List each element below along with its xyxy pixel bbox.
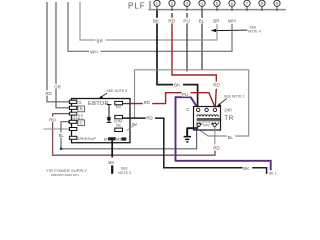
transformer secondary coil bbox=[197, 122, 219, 124]
pin THERM-R bbox=[69, 112, 76, 115]
wire BK from relay coil M1 bbox=[111, 140, 113, 157]
label 24V bbox=[202, 123, 210, 127]
transformer TR box bbox=[194, 107, 221, 131]
svg-text:NO: NO bbox=[116, 105, 122, 109]
svg-text:BK: BK bbox=[153, 19, 160, 24]
svg-text:PU: PU bbox=[132, 122, 138, 127]
label BK on wire bbox=[173, 82, 183, 88]
label PU pin3 bbox=[183, 18, 192, 24]
svg-text:BR: BR bbox=[213, 19, 220, 24]
label RD on wire bbox=[49, 117, 57, 123]
svg-text:TR: TR bbox=[224, 115, 234, 122]
svg-text:C: C bbox=[186, 107, 189, 112]
label BR pin5 bbox=[212, 18, 222, 24]
svg-text:24V: 24V bbox=[203, 124, 210, 128]
svg-text:BK: BK bbox=[243, 166, 249, 171]
node blue at C pin bbox=[68, 120, 71, 123]
label WH pin6 bbox=[227, 18, 237, 24]
svg-text:R: R bbox=[80, 107, 83, 112]
wire RD thermostat: top edge down to G pin bbox=[47, 2, 70, 102]
svg-text:BK: BK bbox=[174, 83, 181, 88]
label WH on wire bbox=[89, 48, 101, 54]
svg-text:RD: RD bbox=[168, 19, 175, 24]
label PU bbox=[182, 92, 191, 97]
connector PLF pin 2 bbox=[169, 0, 175, 11]
svg-text:208/230V 60HZ 1PH: 208/230V 60HZ 1PH bbox=[51, 173, 79, 176]
wire BR: pin5 down, left, up to top edge bbox=[80, 2, 217, 40]
EBTDR relay box bbox=[72, 99, 131, 143]
ground wire from 24V common bbox=[187, 128, 196, 137]
svg-text:RD: RD bbox=[146, 116, 152, 121]
label BK pin1 bbox=[152, 18, 162, 24]
wire COM black to bottom right bbox=[123, 118, 267, 174]
svg-text:PU: PU bbox=[183, 19, 189, 24]
svg-text:RD: RD bbox=[213, 83, 219, 88]
svg-text:PLF: PLF bbox=[128, 2, 146, 11]
label BK on bottom wire bbox=[243, 165, 253, 170]
wire stub pin4 BL bbox=[201, 10, 203, 69]
wire RD: pin2 down, right, down to transformer 240 terminal bbox=[172, 13, 216, 109]
label BL pin4 bbox=[198, 18, 206, 24]
connector PLF pin 7 bbox=[244, 0, 250, 11]
svg-text:SPEEDUP: SPEEDUP bbox=[77, 136, 96, 141]
svg-text:BL: BL bbox=[199, 19, 205, 24]
wire RD secondary: transformer down to maroon return bbox=[214, 127, 216, 145]
svg-text:WH: WH bbox=[90, 49, 98, 54]
contact COM bbox=[115, 115, 123, 118]
svg-text:240: 240 bbox=[224, 107, 232, 112]
wire WH: pin6 down, left, up to top edge bbox=[68, 2, 232, 51]
svg-text:BR: BR bbox=[97, 38, 104, 43]
connector PLF pin 9 bbox=[274, 0, 280, 11]
svg-text:BK: BK bbox=[108, 160, 114, 165]
transformer primary coil bbox=[197, 115, 219, 117]
svg-text:WH: WH bbox=[228, 19, 236, 24]
wire GR thermostat: top edge down to R pin bbox=[56, 2, 70, 108]
pin aux bbox=[69, 128, 76, 131]
label RD on wire bbox=[45, 90, 52, 95]
label RD pin2 bbox=[168, 18, 177, 24]
svg-text:M2: M2 bbox=[116, 137, 122, 142]
wire NC stub bbox=[127, 124, 136, 130]
contact NC bbox=[115, 128, 123, 131]
svg-text:RD: RD bbox=[45, 91, 51, 96]
svg-text:G: G bbox=[78, 100, 81, 105]
connector PLF pin 6 bbox=[229, 0, 235, 11]
wire BL common: C pin left, down, right to transformer junction bbox=[61, 122, 197, 149]
connector PLF pin 1 bbox=[154, 0, 160, 11]
svg-text:GR: GR bbox=[54, 84, 61, 89]
terminal bottom left bbox=[197, 123, 200, 126]
label RD on wire bbox=[213, 82, 222, 88]
label BL on C wire bbox=[58, 133, 66, 138]
svg-text:SEE NOTE 1: SEE NOTE 1 bbox=[224, 94, 245, 98]
svg-text:BK 1: BK 1 bbox=[269, 171, 276, 175]
svg-text:RD: RD bbox=[144, 100, 150, 105]
connector PLF pin 4 bbox=[199, 0, 205, 11]
svg-text:RD: RD bbox=[213, 146, 219, 151]
pin G bbox=[69, 100, 76, 103]
connector PLF bracket bar bbox=[149, 1, 287, 10]
label GR on wire bbox=[54, 84, 62, 89]
wire terminal to junction bbox=[197, 125, 199, 128]
ground symbol bbox=[184, 137, 191, 142]
svg-text:BL: BL bbox=[228, 135, 234, 140]
transformer core bbox=[197, 119, 220, 121]
svg-text:SEE NOTE 5: SEE NOTE 5 bbox=[107, 89, 128, 93]
wire PU: pin3 down (dangling) bbox=[186, 13, 188, 72]
svg-text:NOTE 3: NOTE 3 bbox=[118, 171, 131, 175]
svg-text:SEE: SEE bbox=[121, 166, 129, 170]
connector PLF pin 3 bbox=[184, 0, 190, 11]
svg-text:EBTDR: EBTDR bbox=[88, 101, 109, 107]
wire COM-BL: relay COM up, right, down, left to BL junction bbox=[135, 70, 249, 136]
pin R bbox=[69, 106, 76, 109]
terminal bottom right bbox=[213, 123, 216, 126]
terminal top mid bbox=[205, 108, 208, 111]
node blue corner bbox=[60, 148, 62, 150]
pin C bbox=[69, 120, 76, 123]
connector PLF pin 8 bbox=[259, 0, 265, 11]
connector PLF pin 5 bbox=[214, 0, 220, 11]
svg-text:C: C bbox=[80, 121, 83, 126]
wire BK power stub bbox=[111, 165, 113, 173]
see note 4 arrow bbox=[215, 29, 248, 31]
pin SPEEDUP bbox=[69, 136, 76, 139]
wire BK: pin1 down, right, down to transformer C terminal bbox=[157, 10, 198, 108]
contact NO bbox=[115, 101, 123, 104]
svg-text:BL: BL bbox=[59, 133, 65, 138]
terminal top left bbox=[197, 108, 200, 111]
wire RD to THERM pin and down to transformer RD return bbox=[53, 114, 215, 156]
see note 5 arrow bbox=[101, 93, 107, 97]
wire stub to lower left pin bbox=[44, 128, 70, 130]
svg-text:NC: NC bbox=[116, 123, 122, 127]
relay contact arm bbox=[107, 105, 112, 123]
label BL on wire bbox=[227, 134, 235, 139]
wire NO RD red bbox=[123, 93, 216, 108]
svg-text:PU: PU bbox=[182, 92, 188, 97]
label BR on wire bbox=[96, 38, 107, 44]
see note 1 arrow bbox=[219, 99, 226, 105]
wire PU purple: transformer primary to bottom right bbox=[176, 97, 271, 170]
svg-text:NOTE 4: NOTE 4 bbox=[248, 29, 261, 33]
terminal top right bbox=[213, 108, 216, 111]
node blue junction 24V common bbox=[195, 127, 198, 130]
svg-text:RD: RD bbox=[49, 117, 56, 122]
